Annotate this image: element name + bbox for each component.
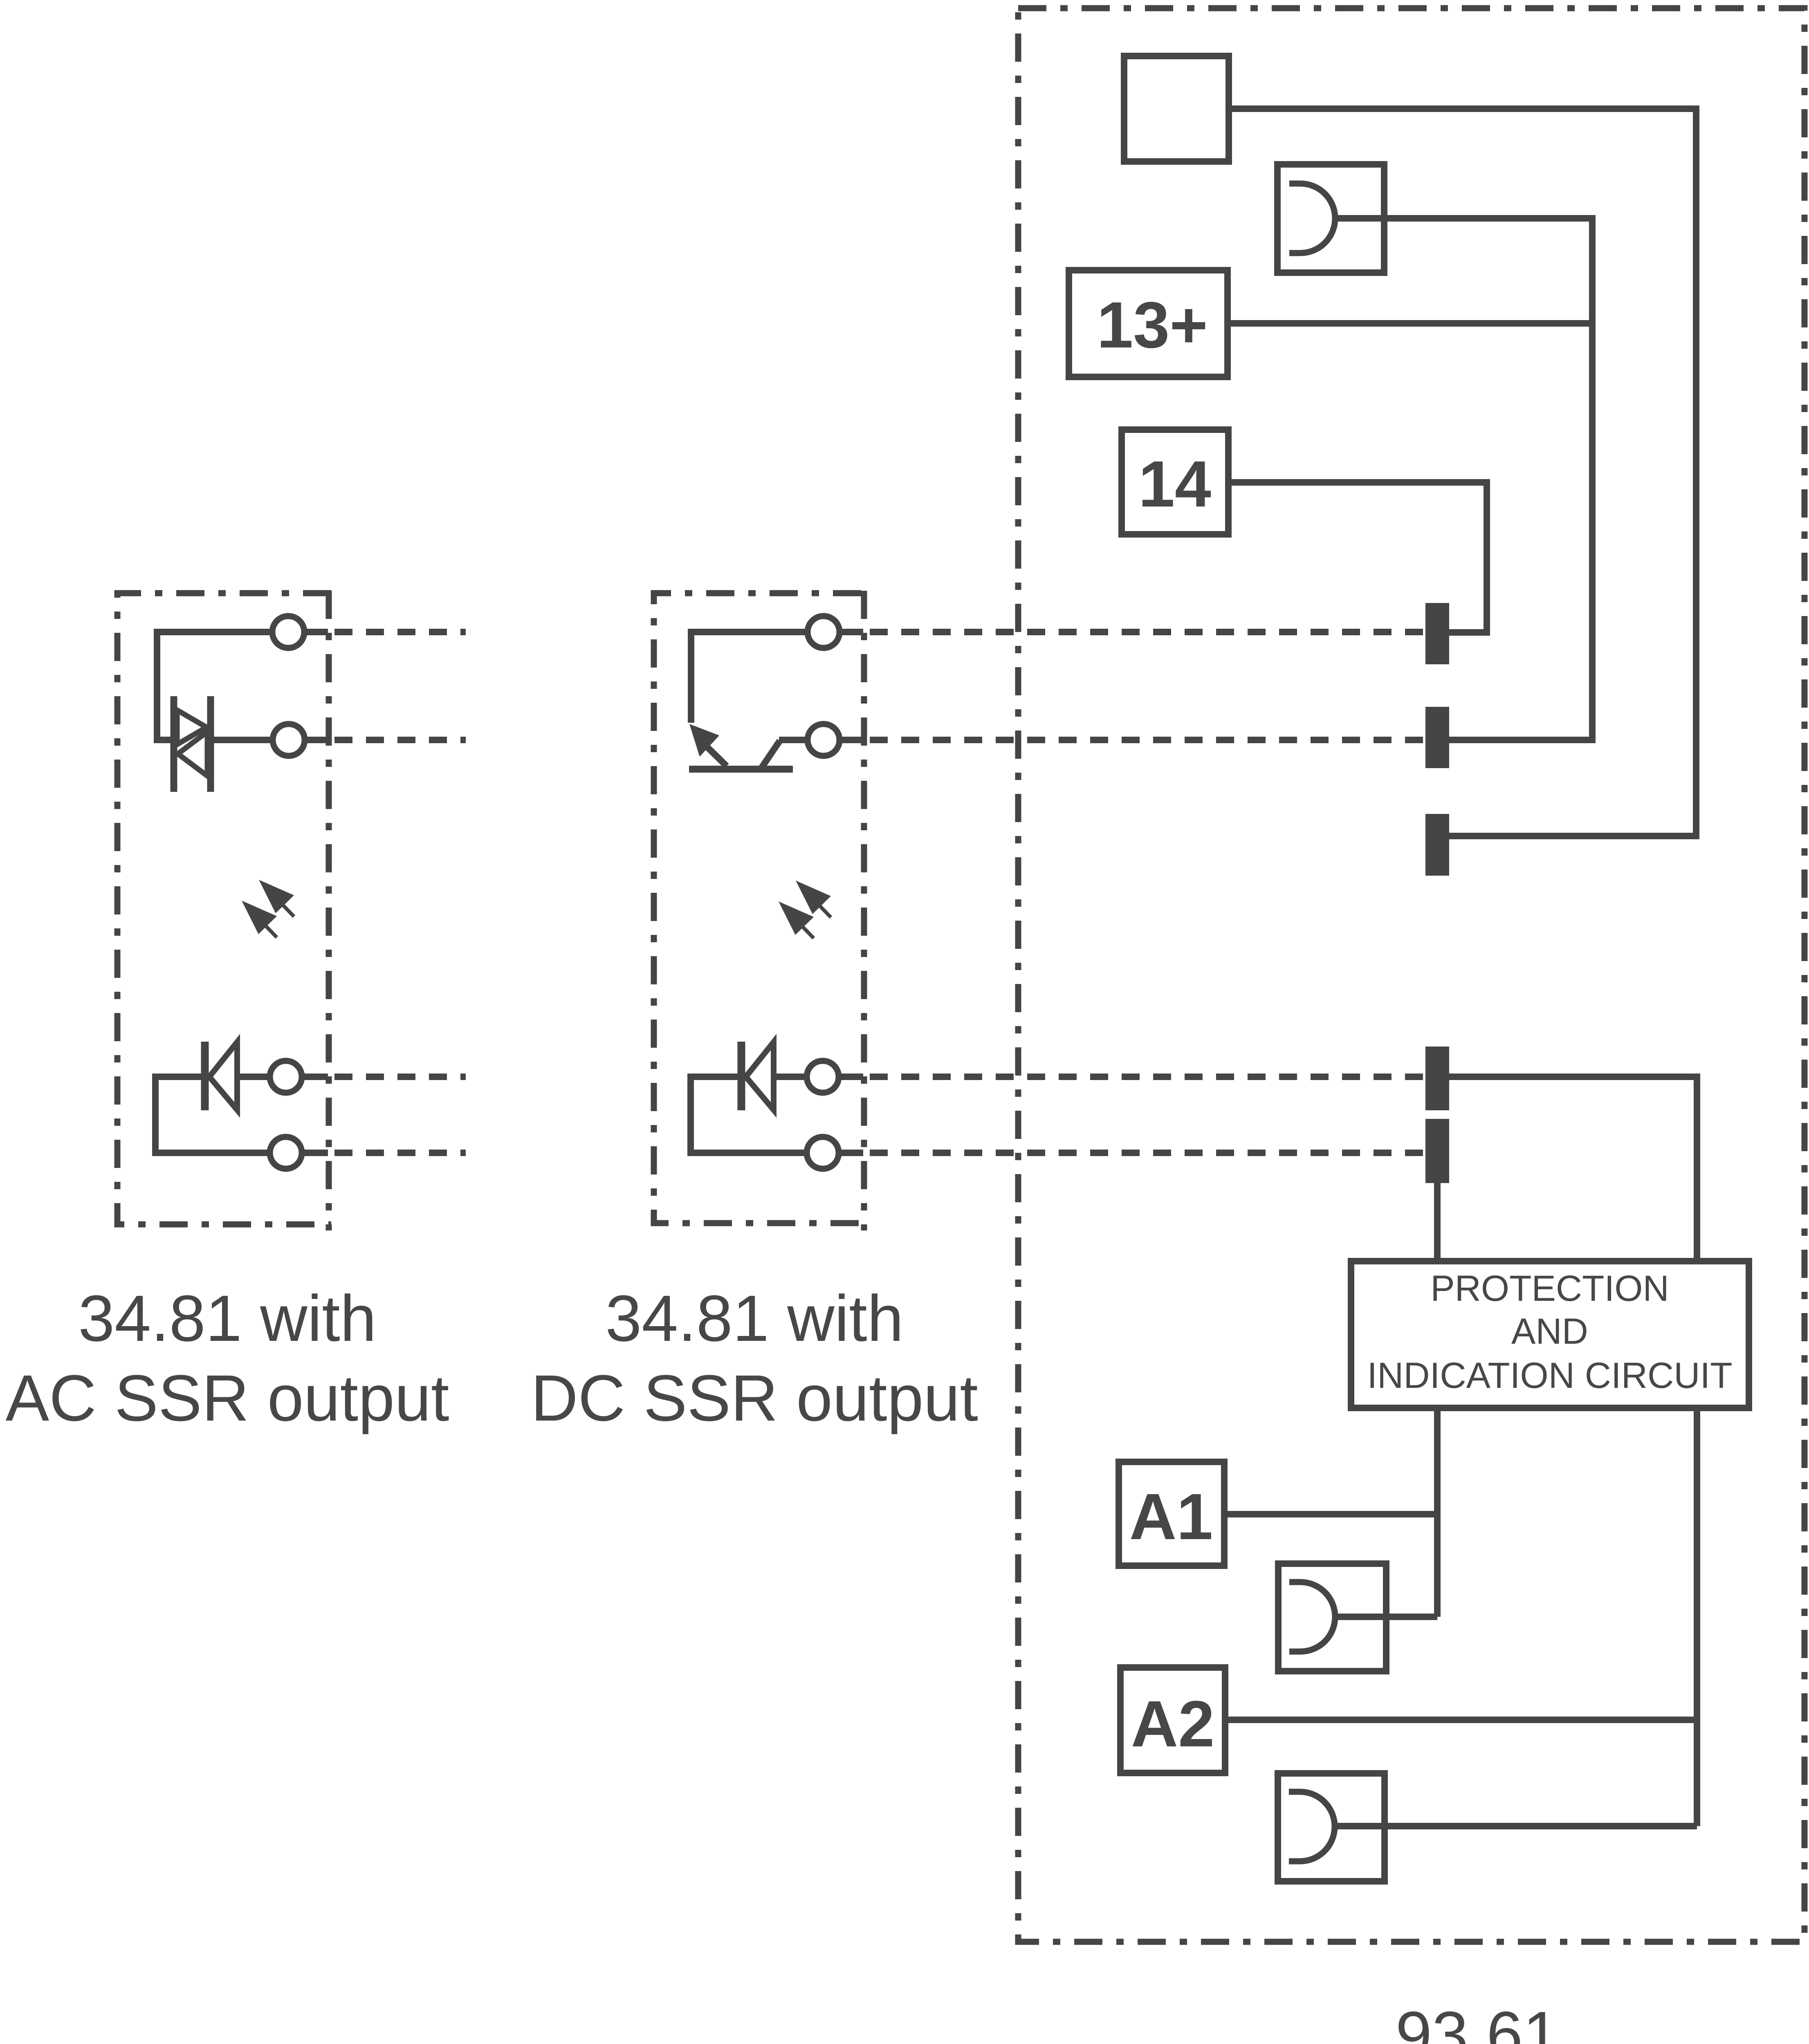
svg-text:14: 14	[1138, 447, 1211, 520]
dashed wire DC-1 to pin A	[870, 629, 1425, 635]
wire pin D to protection circuit	[1449, 1077, 1697, 1258]
wire T1 to junction and pin B	[1335, 218, 1592, 740]
screw terminal T3 (arc box below A1)	[1278, 1564, 1386, 1671]
svg-text:A1: A1	[1129, 1480, 1213, 1553]
dashed stub wire AC-2	[334, 737, 466, 743]
terminal box 14	[1122, 430, 1228, 534]
wire transistor to DC-2	[779, 737, 808, 743]
LED diode DC triangle	[746, 1042, 774, 1110]
svg-text:PROTECTION: PROTECTION	[1430, 1268, 1669, 1309]
connector pin D	[1425, 1047, 1449, 1110]
connector pin B	[1425, 707, 1449, 768]
svg-text:AC SSR output: AC SSR output	[6, 1361, 449, 1434]
svg-text:34.81 with: 34.81 with	[78, 1282, 376, 1355]
terminal circle AC-2	[273, 724, 305, 756]
socket 93.61 boundary (dash-dot box)	[1018, 8, 1805, 1942]
terminal circle AC-4	[270, 1137, 302, 1169]
wire triac to AC-2	[214, 737, 273, 743]
terminal circle DC-1	[808, 616, 839, 648]
LED arrow DC upper	[796, 881, 831, 914]
stub AC-4	[302, 1150, 328, 1156]
terminal circle DC-2	[808, 724, 839, 756]
wire A1	[1228, 1511, 1437, 1517]
relay 34.81 DC block boundary (dash-dot)	[654, 593, 861, 1223]
svg-text:93.61: 93.61	[1396, 1998, 1559, 2044]
dashed stub wire AC-1	[334, 629, 466, 635]
connector pin E	[1425, 1119, 1449, 1183]
transistor Q1 arrowhead	[689, 724, 719, 757]
wire 13+ to junction	[1231, 320, 1592, 327]
terminal box 13+	[1069, 270, 1228, 377]
wire protection box right vertical	[1694, 1408, 1700, 1826]
wire T3	[1335, 1614, 1437, 1620]
svg-text:13+: 13+	[1097, 288, 1207, 361]
svg-text:A2: A2	[1131, 1687, 1215, 1760]
wire diode loop DC	[691, 1077, 807, 1153]
transistor Q1 arrow shaft	[704, 744, 727, 766]
dashed wire DC-2 to pin B	[870, 737, 1425, 743]
dashed stub wire AC-3	[334, 1074, 466, 1080]
svg-text:INDICATION CIRCUIT: INDICATION CIRCUIT	[1367, 1355, 1732, 1396]
wire protection box to A1 node	[1434, 1408, 1441, 1617]
terminal box (blank) top of 93.61	[1124, 56, 1229, 161]
terminal circle AC-1	[272, 616, 304, 648]
transistor Q1 collector diagonal	[761, 741, 780, 769]
wire diode loop AC	[155, 1077, 270, 1153]
dashed wire DC-3 to pin D	[870, 1074, 1425, 1080]
screw clamp arc T3	[1289, 1582, 1335, 1652]
stub DC-2	[839, 737, 863, 743]
triac right bar	[207, 696, 214, 792]
triac left bar	[171, 696, 177, 792]
connector pin A	[1425, 603, 1449, 664]
stub AC-2	[305, 737, 328, 743]
wire 14 to pin A	[1232, 482, 1487, 632]
LED diode AC triangle	[209, 1042, 237, 1110]
dashed wire DC-4 to pin E	[870, 1150, 1425, 1156]
relay 34.81 AC block boundary (dash-dot)	[117, 593, 331, 1224]
screw clamp arc T1	[1289, 184, 1335, 253]
wire AC-1 to triac	[157, 632, 269, 740]
relay 34.81 DC plug interface line	[861, 591, 867, 1230]
LED arrow DC lower	[779, 901, 814, 935]
transistor Q1 base bar	[689, 766, 793, 773]
terminal box A2	[1120, 1667, 1225, 1773]
wire T4	[1335, 1823, 1697, 1829]
svg-text:AND: AND	[1511, 1311, 1588, 1351]
LED arrow AC upper	[259, 880, 294, 913]
stub DC-1	[839, 629, 863, 635]
LED diode AC cathode bar	[201, 1042, 209, 1110]
dashed stub wire AC-4	[334, 1150, 466, 1156]
screw terminal T1 (arc box top)	[1277, 164, 1384, 273]
wire diode to AC-3	[237, 1074, 270, 1080]
stub AC-1	[304, 629, 328, 635]
screw clamp arc T4	[1289, 1792, 1335, 1861]
triac triangle down	[178, 732, 207, 776]
wire diode to DC-3	[774, 1074, 807, 1080]
triac triangle up	[177, 710, 206, 744]
connector pin C	[1425, 814, 1449, 876]
terminal circle DC-3	[807, 1061, 839, 1093]
terminal box A1	[1119, 1462, 1224, 1566]
protection and indication circuit box U1	[1351, 1261, 1749, 1408]
LED arrow AC lower	[242, 901, 277, 934]
svg-text:34.81 with: 34.81 with	[605, 1282, 903, 1355]
LED diode DC cathode bar	[738, 1042, 745, 1110]
relay 34.81 AC plug interface line	[326, 591, 332, 1230]
terminal circle AC-3	[270, 1061, 302, 1093]
terminal circle DC-4	[807, 1137, 839, 1169]
wire pin E to protection circuit	[1434, 1183, 1441, 1258]
svg-text:DC SSR output: DC SSR output	[531, 1361, 978, 1434]
screw terminal T4 (arc box below A2)	[1278, 1773, 1385, 1881]
wire A2	[1228, 1717, 1697, 1723]
stub DC-3	[839, 1074, 863, 1080]
stub DC-4	[839, 1150, 863, 1156]
wire blank-square to pin C	[1232, 109, 1696, 836]
stub AC-3	[302, 1074, 328, 1080]
wire DC-1 to transistor	[691, 632, 808, 723]
